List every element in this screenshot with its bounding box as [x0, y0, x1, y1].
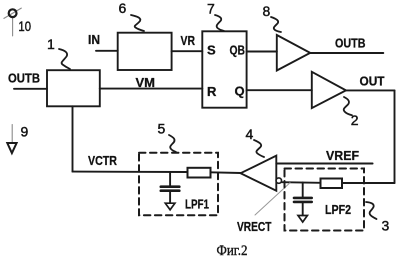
leader squiggle for 5 — [169, 135, 176, 152]
wire QB to buffer 8 — [247, 51, 277, 53]
svg-text:R: R — [207, 84, 217, 99]
svg-text:6: 6 — [119, 0, 127, 16]
wire OUT vertical — [394, 90, 396, 183]
buffer 8 — [277, 35, 310, 71]
node VRECT wire — [282, 181, 321, 184]
buffer 2 — [312, 72, 346, 108]
leader squiggle for 6 — [131, 15, 144, 31]
svg-text:5: 5 — [158, 121, 166, 137]
svg-text:Q: Q — [235, 84, 245, 99]
svg-text:9: 9 — [21, 124, 29, 140]
svg-text:S: S — [207, 43, 216, 58]
ground (LPF1) — [165, 203, 175, 210]
flip-flop 7 — [202, 31, 246, 107]
ground (LPF2) — [298, 216, 307, 223]
leader squiggle for 8 — [271, 17, 281, 32]
leader line for VRECT — [255, 183, 290, 215]
LPF2 dashed box — [285, 169, 365, 231]
resistor R1 (in LPF1) — [188, 168, 211, 178]
capacitor C1 plates — [161, 185, 180, 188]
leader squiggle for 4 — [254, 140, 264, 157]
arrow symbol 9 — [7, 125, 16, 154]
leader squiggle for 3 — [366, 202, 377, 219]
wire OUT return to LPF2 — [342, 182, 395, 184]
svg-text:VCTR: VCTR — [88, 153, 117, 168]
svg-text:OUTB: OUTB — [8, 71, 40, 86]
LPF1 dashed box — [139, 153, 218, 215]
wire VM — [100, 88, 203, 90]
svg-text:10: 10 — [18, 18, 31, 34]
leader squiggle for 1 — [59, 49, 70, 69]
svg-text:Фиг.2: Фиг.2 — [217, 243, 248, 258]
svg-text:IN: IN — [88, 32, 100, 47]
capacitor C2 plates — [294, 197, 312, 200]
wire VCTR — [73, 171, 188, 173]
block 6 — [118, 33, 172, 70]
capacitor C1 stem (in LPF1) — [169, 172, 171, 185]
wire OUTB output — [310, 52, 383, 54]
svg-text:8: 8 — [263, 3, 271, 19]
wire OUTB input — [14, 88, 47, 90]
capacitor C2 stem (in LPF2) — [302, 183, 304, 197]
svg-text:OUT: OUT — [360, 74, 385, 89]
comparator 4 — [241, 156, 277, 191]
svg-text:4: 4 — [246, 126, 254, 142]
svg-text:VREF: VREF — [326, 148, 359, 163]
svg-text:1: 1 — [47, 36, 55, 52]
svg-text:QB: QB — [230, 43, 246, 58]
inverting input bubble of 4 — [276, 178, 281, 183]
wire Q to buffer 2 — [247, 89, 312, 91]
wire VR — [172, 50, 203, 52]
wire OUT to right edge — [346, 89, 395, 91]
svg-text:LPF2: LPF2 — [325, 202, 351, 217]
svg-text:7: 7 — [207, 1, 215, 17]
svg-text:3: 3 — [382, 218, 390, 234]
resistor R2 (in LPF2) — [321, 179, 343, 189]
wire comparator 4 output to R1 — [211, 171, 241, 174]
connector symbol 10 — [4, 8, 21, 36]
leader squiggle for 7 — [215, 15, 224, 31]
leader squiggle for 2 — [344, 97, 352, 115]
svg-text:VRECT: VRECT — [237, 219, 272, 234]
svg-text:OUTB: OUTB — [335, 36, 366, 51]
capacitor C1 lower stem — [169, 192, 171, 203]
block 1 — [47, 70, 100, 106]
svg-text:VR: VR — [181, 33, 196, 48]
wire IN — [96, 50, 118, 52]
capacitor C2 lower stem — [302, 203, 304, 215]
wire VREF — [276, 163, 372, 165]
svg-text:LPF1: LPF1 — [185, 197, 209, 212]
svg-text:VM: VM — [136, 75, 156, 90]
wire from block 1 down — [72, 106, 74, 171]
